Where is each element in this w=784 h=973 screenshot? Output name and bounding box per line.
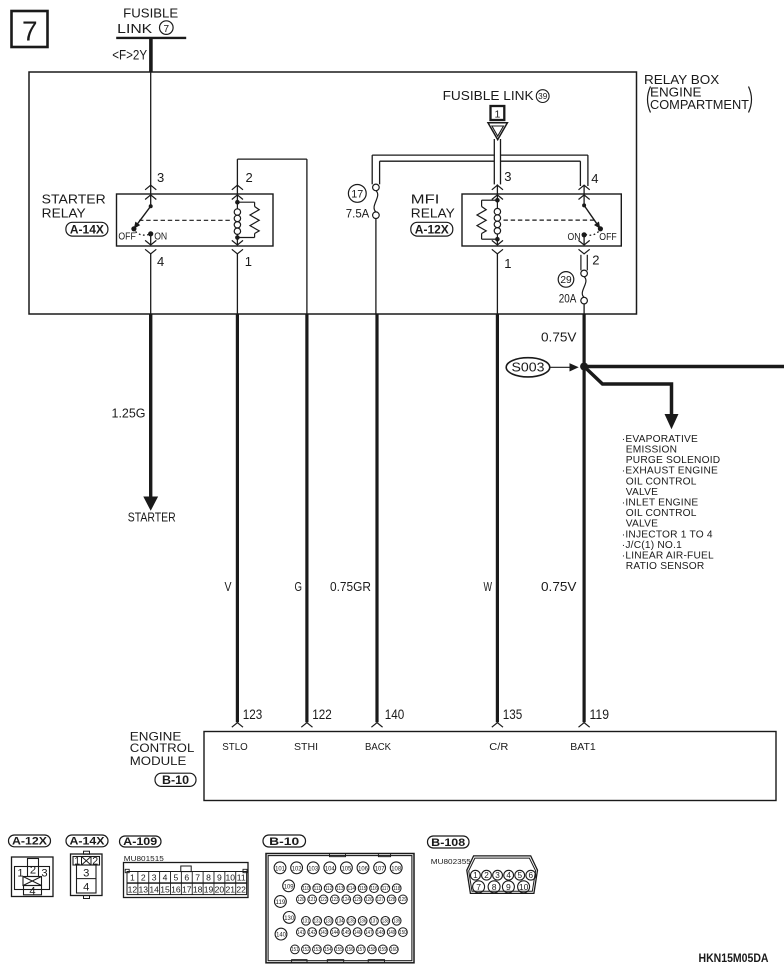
svg-text:9: 9 [217,873,222,883]
wire starter relay pin 1 to box edge [236,254,238,314]
ECM pin 119 terminal [579,707,610,727]
svg-text:121: 121 [309,897,316,903]
svg-text:19: 19 [204,885,214,895]
svg-text:158: 158 [368,947,375,953]
svg-text:2: 2 [484,871,489,880]
svg-text:3: 3 [495,871,500,880]
svg-text:104: 104 [325,865,335,872]
starter relay pin 2 rail wire [237,159,307,314]
svg-text:114: 114 [348,886,355,892]
svg-text:A-12X: A-12X [415,224,449,237]
svg-text:1: 1 [494,109,500,121]
svg-text:10: 10 [226,873,236,883]
fusible link 39 symbol [488,123,507,140]
svg-text:·LINEAR AIR-FUEL: ·LINEAR AIR-FUEL [622,551,714,562]
svg-text:132: 132 [314,919,321,925]
svg-text:EMISSION: EMISSION [626,445,677,456]
svg-text:·J/C(1) NO.1: ·J/C(1) NO.1 [622,540,682,551]
starter relay pin 2 terminal [232,170,253,200]
MFI relay ON label [568,232,581,243]
svg-text:159: 159 [379,947,386,953]
wire size label V [225,579,232,594]
svg-text:102: 102 [292,865,302,872]
svg-text:LINK: LINK [117,22,153,36]
ECM pin name C/R [489,742,509,753]
svg-text:B-10: B-10 [162,773,189,787]
wire STHI thick [305,314,308,722]
ECM pin name STHI [294,742,318,753]
svg-text:MFI: MFI [411,192,440,206]
hollow feed wire from fusible link 39 [494,139,500,184]
svg-text:6: 6 [184,873,189,883]
svg-text:16: 16 [171,885,181,895]
svg-text:18: 18 [193,885,203,895]
svg-text:129: 129 [399,897,406,903]
connector view A-12X [12,857,54,897]
svg-text:0.75V: 0.75V [541,330,577,345]
svg-text:133: 133 [325,919,332,925]
svg-text:143: 143 [320,930,327,936]
svg-text:BAT1: BAT1 [570,742,596,753]
svg-text:V: V [225,579,232,594]
svg-text:148: 148 [377,930,384,936]
svg-text:RELAY: RELAY [42,206,87,220]
svg-text:22: 22 [236,885,246,895]
svg-text:103: 103 [308,865,318,872]
svg-text:134: 134 [336,919,343,925]
MFI relay label [411,192,456,236]
svg-text:118: 118 [393,886,400,892]
engine control module label [130,729,196,787]
svg-text:3: 3 [152,873,157,883]
svg-text:2: 2 [92,855,98,867]
svg-text:147: 147 [365,930,372,936]
MFI relay armature dashed link [504,219,596,221]
relay box label [644,73,752,113]
svg-text:RELAY: RELAY [411,206,456,220]
svg-text:151: 151 [291,947,298,953]
ECM pin 135 terminal [492,707,523,727]
svg-text:125: 125 [354,897,361,903]
svg-text:COMPARTMENT: COMPARTMENT [650,98,749,112]
svg-text:3: 3 [41,868,47,880]
wire C/R thick [496,314,499,722]
svg-text:4: 4 [29,885,35,897]
starter relay pin 4 terminal [145,234,164,269]
drawing number HKN15M05DA [699,951,769,965]
svg-text:S003: S003 [512,360,545,375]
svg-text:140: 140 [276,932,286,939]
svg-text:135: 135 [348,919,355,925]
ECM pin name STLO [222,742,248,753]
starter relay armature dashed link [139,219,233,221]
wire STLO thick [236,314,239,722]
svg-text:·EVAPORATIVE: ·EVAPORATIVE [622,434,698,445]
STARTER destination label [128,510,176,525]
svg-text:119: 119 [590,707,610,722]
svg-text:5: 5 [174,873,179,883]
svg-text:140: 140 [385,707,405,722]
fusible link 39 connector box 1 [491,106,505,121]
svg-text:OIL CONTROL: OIL CONTROL [626,508,697,519]
svg-text:9: 9 [506,882,511,892]
fuse 17 symbol [373,184,380,218]
connector label B-10 [263,835,306,848]
wire fusible link7 node to starter relay pin 3 [150,72,152,206]
svg-text:21: 21 [226,885,236,895]
svg-text:3: 3 [504,169,511,184]
svg-text:STARTER: STARTER [128,510,176,525]
svg-text:144: 144 [331,930,338,936]
wire MFI pin 1 to box edge [496,254,498,314]
svg-text:12: 12 [128,885,138,895]
MFI relay coil resistor [477,200,497,239]
svg-text:1: 1 [74,855,80,867]
svg-text:4: 4 [163,873,168,883]
svg-text:120: 120 [297,897,304,903]
wire size label 0.75V lower [541,579,577,594]
svg-text:FUSIBLE: FUSIBLE [123,7,178,21]
wire starter (1.25G) thick [144,314,157,510]
starter relay ON label [154,232,167,243]
svg-text:101: 101 [275,865,285,872]
svg-text:2: 2 [30,864,36,876]
svg-text:1: 1 [130,873,135,883]
wire starter relay pin 4 to box edge [150,254,152,314]
svg-text:4: 4 [506,871,511,880]
MFI relay pin 1 terminal [492,239,512,271]
svg-text:C/R: C/R [489,742,509,753]
svg-text:5: 5 [517,871,522,880]
wire size label G [295,579,303,594]
svg-text:141: 141 [297,930,304,936]
svg-text:109: 109 [284,883,294,890]
svg-text:14: 14 [149,885,159,895]
ECM pin 140 terminal [371,707,404,727]
svg-text:8: 8 [206,873,211,883]
svg-text:126: 126 [365,897,372,903]
svg-text:3: 3 [83,868,89,880]
svg-text:1: 1 [473,871,478,880]
starter relay U1 outline [117,194,274,246]
svg-text:128: 128 [388,897,395,903]
svg-text:156: 156 [346,947,353,953]
starter relay switch [131,204,153,236]
svg-text:A-109: A-109 [123,836,157,848]
fuse 29 symbol [581,270,588,304]
svg-text:160: 160 [390,947,397,953]
svg-text:111: 111 [314,886,321,892]
svg-text:4: 4 [591,171,598,186]
svg-text:29: 29 [560,275,572,286]
svg-text:105: 105 [342,865,352,872]
svg-text:W: W [484,579,493,594]
svg-text:<F>2Y: <F>2Y [112,47,147,62]
svg-text:110: 110 [302,886,309,892]
sheet number box 7 [12,11,48,47]
S003 destination device list [622,434,721,572]
svg-text:7: 7 [195,873,200,883]
svg-text:138: 138 [382,919,389,925]
relay box outline [29,72,637,314]
ECM pin name BAT1 [570,742,596,753]
svg-text:155: 155 [335,947,342,953]
svg-text:13: 13 [139,885,149,895]
svg-text:152: 152 [302,947,309,953]
starter relay pin 1 terminal [232,238,252,270]
svg-text:131: 131 [302,919,309,925]
svg-text:145: 145 [343,930,350,936]
wire size label W [484,579,493,594]
svg-text:A-14X: A-14X [70,224,104,237]
svg-text:15: 15 [160,885,170,895]
ECM pin 123 terminal [232,707,262,727]
svg-text:A-14X: A-14X [70,836,106,848]
starter relay coil resistor [237,202,259,237]
svg-text:6: 6 [529,871,534,880]
svg-text:HKN15M05DA: HKN15M05DA [699,951,769,965]
svg-text:PURGE SOLENOID: PURGE SOLENOID [626,455,721,466]
svg-text:154: 154 [324,947,331,953]
fuse 29 label [558,272,576,306]
hollow bus right drop to MFI pin 4 [580,155,588,186]
hollow bus top line [372,154,588,156]
svg-text:136: 136 [359,919,366,925]
svg-text:107: 107 [375,865,385,872]
svg-text:20: 20 [215,885,225,895]
svg-text:7: 7 [476,882,481,892]
fuse 17 label [346,185,370,221]
svg-text:130: 130 [284,915,294,922]
svg-text:2: 2 [246,170,253,185]
wire 1.25G size label [112,405,146,420]
svg-text:MODULE: MODULE [130,754,187,768]
svg-text:MU801515: MU801515 [124,854,164,863]
svg-text:1.25G: 1.25G [112,405,146,420]
splice S003 pointer arrow [551,364,578,371]
svg-text:142: 142 [309,930,316,936]
svg-text:113: 113 [336,886,343,892]
svg-text:135: 135 [503,707,523,722]
svg-text:146: 146 [354,930,361,936]
svg-text:20A: 20A [559,291,577,305]
svg-text:B-108: B-108 [431,837,465,849]
svg-text:4: 4 [83,882,89,894]
wire S003 branch to device list [584,367,678,429]
connector A-109 part number [124,854,164,863]
svg-text:10: 10 [519,882,529,892]
svg-text:STLO: STLO [222,742,248,753]
connector view A-109 [124,863,249,898]
svg-text:·INJECTOR 1 TO 4: ·INJECTOR 1 TO 4 [622,529,713,540]
svg-text:106: 106 [358,865,368,872]
svg-text:1: 1 [245,254,252,269]
svg-text:122: 122 [312,707,332,722]
svg-text:B-10: B-10 [269,836,299,848]
svg-text:3: 3 [157,170,164,185]
svg-text:7: 7 [22,16,38,47]
svg-text:A-12X: A-12X [12,836,48,848]
ECM pin name BACK [365,742,391,753]
svg-text:127: 127 [377,897,384,903]
svg-text:108: 108 [391,865,401,872]
svg-text:39: 39 [538,92,548,101]
svg-text:149: 149 [388,930,395,936]
svg-text:·EXHAUST ENGINE: ·EXHAUST ENGINE [622,466,718,477]
connector label B-108 [428,836,470,849]
connector label A-12X [9,835,51,848]
svg-text:115: 115 [359,886,366,892]
wire BAT1 thick [582,314,585,722]
fusible link 7 label [116,7,186,38]
connector view B-108 [467,856,538,894]
svg-text:112: 112 [325,886,332,892]
svg-text:BACK: BACK [365,742,391,753]
connector label A-14X [66,835,108,848]
svg-text:7: 7 [164,24,170,35]
wire fuse 29 to box edge [583,304,585,314]
svg-text:STHI: STHI [294,742,318,753]
connector B-108 part number [431,857,471,866]
wire size label 0.75V upper [541,330,577,345]
svg-text:STARTER: STARTER [42,192,106,206]
engine control module outline [204,732,776,801]
MFI relay pin 4 terminal [579,171,599,205]
starter relay coil [234,200,240,240]
svg-text:4: 4 [157,254,164,269]
hollow bus bottom line [380,160,581,162]
svg-text:VALVE: VALVE [626,519,658,530]
svg-text:116: 116 [370,886,377,892]
MFI relay coil [494,198,500,242]
svg-text:17: 17 [182,885,192,895]
ECM pin 122 terminal [301,707,332,727]
hollow bus left drop to fuse 17 [372,155,379,184]
node S003 junction [580,363,588,371]
wire size label 0.75GR [330,579,371,594]
svg-text:123: 123 [331,897,338,903]
svg-text:137: 137 [370,919,377,925]
MFI relay pin 3 terminal [492,169,512,200]
MFI relay pin 2 terminal [579,235,600,268]
starter relay pin 3 terminal [145,170,164,200]
wire BACK thick [375,314,378,722]
MFI relay OFF label [599,232,616,243]
svg-text:0.75GR: 0.75GR [330,579,371,594]
svg-text:157: 157 [357,947,364,953]
svg-text:OIL CONTROL: OIL CONTROL [626,476,697,487]
connector label A-109 [120,836,162,848]
svg-text:123: 123 [243,707,262,722]
starter relay label [42,192,108,236]
svg-text:VALVE: VALVE [626,487,658,498]
starter relay OFF label [118,232,135,243]
svg-text:·INLET ENGINE: ·INLET ENGINE [622,498,699,509]
wire S003 to right edge (thick) [584,365,784,369]
svg-text:MU802355: MU802355 [431,857,471,866]
fuse 29 holder [581,255,587,271]
svg-text:11: 11 [237,873,246,883]
svg-text:7.5A: 7.5A [346,206,370,220]
svg-text:119: 119 [276,899,286,906]
svg-text:G: G [295,579,303,594]
svg-text:OFF: OFF [599,232,616,243]
svg-text:OFF: OFF [118,232,135,243]
svg-text:2: 2 [141,873,146,883]
svg-text:150: 150 [399,930,406,936]
MFI relay U2 outline [462,194,621,246]
svg-text:FUSIBLE LINK: FUSIBLE LINK [443,89,535,103]
svg-text:139: 139 [393,919,400,925]
svg-text:153: 153 [313,947,320,953]
svg-text:124: 124 [343,897,350,903]
wire fuse 17 to box edge [375,219,377,315]
splice S003 label [506,358,550,377]
connector view B-10 [266,854,414,963]
svg-text:0.75V: 0.75V [541,579,577,594]
svg-text:RATIO SENSOR: RATIO SENSOR [626,561,705,572]
MFI relay switch [582,203,604,237]
fusible link 39 label [443,89,549,103]
svg-text:17: 17 [351,188,363,200]
svg-text:2: 2 [592,252,599,267]
svg-text:122: 122 [320,897,327,903]
svg-text:1: 1 [504,256,511,271]
wire fusible link 7 to relay box (thick) [149,38,153,72]
connector view A-14X [71,851,103,898]
wire <F>2Y label [112,47,147,62]
svg-text:117: 117 [382,886,389,892]
svg-text:8: 8 [492,882,497,892]
